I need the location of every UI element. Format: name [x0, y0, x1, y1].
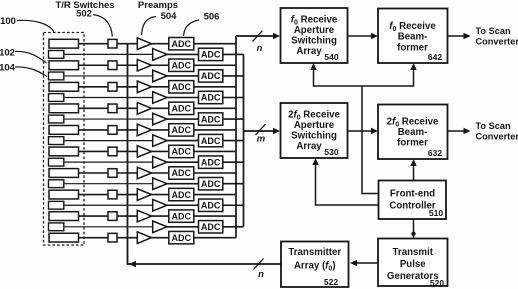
transducer element E6b (2f0) — [49, 158, 64, 166]
wire ADC A7 to f0 bus — [194, 172, 236, 174]
svg-text:ADC: ADC — [172, 39, 192, 49]
leader from 502 to T/R switch SW1 — [93, 15, 112, 37]
wire T/R switch SW7 to preamp PA7 — [117, 172, 137, 174]
label To Scan Converter (f0) — [476, 26, 518, 47]
svg-text:n: n — [257, 43, 263, 54]
wire 540 to 642 — [348, 33, 379, 39]
transmit bus wire (T/R switches to transmitter array) — [128, 44, 282, 264]
control wire front-end controller to 540 and 642 (feedback) — [314, 69, 414, 86]
T/R switch SW3 — [108, 83, 117, 92]
leader from 102 to element E2a — [15, 51, 47, 63]
ADC B8 — [199, 199, 223, 211]
svg-text:520: 520 — [430, 278, 444, 288]
transducer element E5b (2f0) — [49, 137, 64, 145]
wire element E9b to preamp PB9 — [64, 226, 153, 228]
wire element E9a to T/R switch SW9 — [79, 215, 109, 217]
label Preamps — [138, 0, 178, 11]
wire element E4b to preamp PB4 — [64, 118, 153, 120]
ADC A5 — [169, 124, 194, 136]
wire ADC B8 to 2f0 bus — [223, 204, 244, 206]
slash m-channels mark on 2f0 bus — [256, 124, 266, 135]
wire preamp PA6 to ADC A6 — [152, 150, 169, 152]
T/R switch SW10 — [108, 233, 117, 242]
svg-text:ADC: ADC — [201, 50, 221, 60]
wire element E6b to preamp PB6 — [64, 161, 153, 163]
svg-text:522: 522 — [324, 277, 338, 287]
transducer element E3a (f0) — [49, 82, 79, 91]
transducer element E7a (f0) — [49, 169, 79, 178]
svg-text:102: 102 — [0, 47, 15, 58]
svg-text:Array: Array — [296, 141, 322, 152]
transducer element E9b (2f0) — [49, 223, 64, 231]
T/R switch SW5 — [108, 126, 117, 135]
ADC A6 — [169, 145, 194, 157]
svg-text:ADC: ADC — [172, 211, 192, 221]
ADC A7 — [169, 167, 194, 179]
svg-text:ADC: ADC — [201, 179, 221, 189]
svg-text:642: 642 — [428, 52, 442, 62]
wire T/R switch SW8 to preamp PA8 — [117, 194, 137, 196]
transducer element E8a (f0) — [49, 190, 79, 199]
preamp PA2 — [137, 59, 151, 71]
ADC A9 — [169, 210, 194, 222]
wire preamp PB2 to ADC B2 — [167, 75, 199, 77]
wire transmit pulse generators to transmitter array — [350, 260, 378, 266]
svg-text:ADC: ADC — [201, 157, 221, 167]
wire 642 to scan converter (f0) — [448, 33, 471, 39]
wire element E1b to preamp PB1 — [64, 53, 153, 55]
ADC A4 — [169, 102, 194, 114]
transducer element E1a (f0) — [49, 39, 79, 48]
wire preamp PA9 to ADC A9 — [152, 215, 169, 217]
preamp PA7 — [137, 167, 151, 179]
svg-text:ADC: ADC — [172, 168, 192, 178]
wire T/R switch SW4 to preamp PA4 — [117, 107, 137, 109]
transducer array 100 (dashed outline) — [44, 33, 85, 246]
wire preamp PA3 to ADC A3 — [152, 86, 169, 88]
leader from 100 to transducer array — [17, 20, 54, 32]
svg-text:Beam-: Beam- — [398, 32, 428, 43]
T/R switch SW8 — [108, 190, 117, 199]
wire element E10a to T/R switch SW10 — [79, 237, 109, 239]
transducer element E2b (2f0) — [49, 72, 64, 80]
preamp PB5 — [153, 135, 167, 147]
svg-text:ADC: ADC — [201, 200, 221, 210]
wire 2f0 bus to aperture switching array 530 — [244, 128, 281, 134]
block 522 Transmitter Array (f0) — [281, 242, 349, 288]
ADC A8 — [169, 188, 194, 200]
svg-text:ADC: ADC — [172, 190, 192, 200]
slash n-channels mark on f0 bus — [253, 31, 263, 42]
svg-text:former: former — [397, 42, 428, 53]
preamp PA6 — [137, 146, 151, 158]
svg-text:Aperture: Aperture — [294, 120, 335, 131]
transducer element E3b (2f0) — [49, 94, 64, 102]
svg-text:632: 632 — [428, 148, 442, 158]
label To Scan Converter (2f0) — [476, 121, 518, 142]
wire preamp PA10 to ADC A10 — [152, 237, 169, 239]
svg-text:ADC: ADC — [201, 222, 221, 232]
wire ADC A5 to f0 bus — [194, 129, 236, 131]
svg-text:ADC: ADC — [201, 71, 221, 81]
ADC B4 — [199, 113, 223, 125]
label 504 — [161, 11, 178, 22]
wire element E5b to preamp PB5 — [64, 140, 153, 142]
transducer element E5a (f0) — [49, 126, 79, 135]
wire 530 to 632 — [348, 128, 379, 134]
wire element E8a to T/R switch SW8 — [79, 194, 109, 196]
preamp PA1 — [137, 38, 151, 50]
wire front-end controller to transmit pulse generators — [413, 219, 415, 239]
leader from 504 to preamp PA1 — [142, 17, 157, 36]
preamp PB4 — [153, 113, 167, 125]
label 100 — [0, 16, 16, 27]
transducer element E1b (2f0) — [49, 51, 64, 59]
svg-text:Aperture: Aperture — [294, 25, 335, 36]
transducer element E4b (2f0) — [49, 115, 64, 123]
wire element E4a to T/R switch SW4 — [79, 107, 109, 109]
svg-text:100: 100 — [0, 16, 16, 27]
svg-text:506: 506 — [204, 12, 220, 23]
wire preamp PB6 to ADC B6 — [167, 161, 199, 163]
label n on f0 bus — [257, 43, 263, 54]
T/R switch SW1 — [108, 39, 117, 48]
svg-text:Switching: Switching — [291, 131, 337, 142]
T/R switch SW4 — [108, 104, 117, 113]
preamp PA8 — [137, 189, 151, 201]
preamp PB8 — [153, 199, 167, 211]
wire preamp PB5 to ADC B5 — [167, 140, 199, 142]
control wire front-end controller to 632 — [413, 165, 415, 181]
wire element E5a to T/R switch SW5 — [79, 129, 109, 131]
wire ADC A4 to f0 bus — [194, 107, 236, 109]
svg-text:502: 502 — [76, 8, 92, 19]
control trunk from front-end controller to feedback line — [362, 86, 379, 194]
wire preamp PB4 to ADC B4 — [167, 118, 199, 120]
preamp PB3 — [153, 92, 167, 104]
transducer element E6a (f0) — [49, 147, 79, 156]
wire element E3b to preamp PB3 — [64, 97, 153, 99]
wire ADC A1 to f0 bus — [194, 43, 236, 45]
svg-text:Transmit: Transmit — [393, 247, 434, 258]
svg-text:ADC: ADC — [201, 114, 221, 124]
svg-text:ADC: ADC — [172, 125, 192, 135]
ADC B3 — [199, 91, 223, 103]
wire element E2b to preamp PB2 — [64, 75, 153, 77]
svg-text:540: 540 — [324, 52, 338, 62]
svg-text:ADC: ADC — [172, 82, 192, 92]
label 102 — [0, 47, 15, 58]
2f0 digital bus (vertical) — [243, 54, 245, 226]
transducer element E2a (f0) — [49, 61, 79, 70]
block 632 2f0 Receive Beamformer — [378, 105, 448, 160]
wire T/R switch SW1 to preamp PA1 — [117, 43, 137, 45]
ADC B7 — [199, 178, 223, 190]
svg-text:104: 104 — [0, 63, 16, 74]
preamp PB2 — [153, 70, 167, 82]
svg-text:Front-end: Front-end — [390, 189, 435, 200]
T/R switch SW7 — [108, 169, 117, 178]
svg-text:ADC: ADC — [201, 93, 221, 103]
wire element E8b to preamp PB8 — [64, 204, 153, 206]
wire T/R switch SW9 to preamp PA9 — [117, 215, 137, 217]
svg-text:ADC: ADC — [172, 104, 192, 114]
wire T/R switch SW5 to preamp PA5 — [117, 129, 137, 131]
svg-text:To Scan: To Scan — [476, 121, 511, 131]
label T/R Switches — [55, 0, 114, 11]
preamp PA3 — [137, 81, 151, 93]
wire 632 to scan converter (2f0) — [448, 128, 471, 134]
svg-text:504: 504 — [161, 11, 178, 22]
wire ADC A3 to f0 bus — [194, 86, 236, 88]
ADC A2 — [169, 59, 194, 71]
block 510 Front-end Controller — [379, 181, 447, 220]
wire preamp PA5 to ADC A5 — [152, 129, 169, 131]
preamp PB1 — [153, 49, 167, 61]
wire ADC B1 to 2f0 bus — [223, 53, 244, 55]
transducer element E4a (f0) — [49, 104, 79, 113]
transducer element E10a (f0) — [49, 233, 79, 242]
wire element E1a to T/R switch SW1 — [79, 43, 109, 45]
arrowhead into 632 bottom — [410, 159, 416, 166]
block 642 f0 Receive Beamformer — [378, 9, 448, 64]
svg-text:n: n — [258, 269, 264, 280]
svg-text:To Scan: To Scan — [476, 26, 511, 36]
wire ADC A9 to f0 bus — [194, 215, 236, 217]
wire preamp PB3 to ADC B3 — [167, 97, 199, 99]
leader from 104 to element E2b — [15, 67, 47, 77]
wire ADC B4 to 2f0 bus — [223, 118, 244, 120]
label 506 — [204, 12, 220, 23]
ADC B1 — [199, 48, 223, 60]
svg-text:former: former — [397, 138, 428, 149]
wire preamp PA4 to ADC A4 — [152, 107, 169, 109]
preamp PA10 — [137, 232, 151, 244]
wire f0 bus to aperture switching array 540 — [236, 33, 280, 39]
label 104 — [0, 63, 16, 74]
svg-text:Converter: Converter — [476, 37, 518, 47]
wire T/R switch SW10 to preamp PA10 — [117, 237, 137, 239]
label n on transmit line — [258, 269, 264, 280]
wire ADC B7 to 2f0 bus — [223, 183, 244, 185]
transducer element E8b (2f0) — [49, 201, 64, 209]
transducer element E7b (2f0) — [49, 180, 64, 188]
control wire front-end controller to 530 — [316, 164, 379, 205]
ADC A10 — [169, 231, 194, 243]
wire T/R switch SW2 to preamp PA2 — [117, 64, 137, 66]
preamp PB9 — [153, 221, 167, 233]
wire ADC A10 to f0 bus — [194, 237, 236, 239]
svg-text:ADC: ADC — [201, 136, 221, 146]
T/R switch SW2 — [108, 61, 117, 70]
wire T/R switch SW3 to preamp PA3 — [117, 86, 137, 88]
block 530 2f0 Receive Aperture Switching Array — [281, 103, 348, 158]
wire preamp PA8 to ADC A8 — [152, 194, 169, 196]
wire T/R switch SW6 to preamp PA6 — [117, 150, 137, 152]
wire ADC B5 to 2f0 bus — [223, 140, 244, 142]
svg-text:ADC: ADC — [172, 147, 192, 157]
wire ADC B6 to 2f0 bus — [223, 161, 244, 163]
wire preamp PB1 to ADC B1 — [167, 53, 199, 55]
wire element E7b to preamp PB7 — [64, 183, 153, 185]
ADC B5 — [199, 134, 223, 146]
svg-text:510: 510 — [429, 208, 443, 218]
wire preamp PB9 to ADC B9 — [167, 226, 199, 228]
svg-text:Beam-: Beam- — [398, 127, 428, 138]
arrowhead into 642 bottom — [410, 63, 416, 70]
wire ADC A2 to f0 bus — [194, 64, 236, 66]
wire element E3a to T/R switch SW3 — [79, 86, 109, 88]
ADC A1 — [169, 38, 194, 50]
ADC B2 — [199, 70, 223, 82]
label m on 2f0 bus — [257, 134, 266, 145]
svg-text:Converter: Converter — [476, 132, 518, 142]
wire preamp PA1 to ADC A1 — [152, 43, 169, 45]
block 520 Transmit Pulse Generators — [378, 239, 448, 288]
wire ADC B9 to 2f0 bus — [223, 226, 244, 228]
preamp PB6 — [153, 156, 167, 168]
T/R switch SW6 — [108, 147, 117, 156]
ADC A3 — [169, 81, 194, 93]
preamp PA9 — [137, 210, 151, 222]
ADC B9 — [199, 221, 223, 233]
arrowhead on transmit line at bus corner — [129, 261, 136, 267]
wire preamp PB8 to ADC B8 — [167, 204, 199, 206]
wire element E6a to T/R switch SW6 — [79, 150, 109, 152]
svg-text:Array: Array — [296, 46, 322, 57]
wire element E7a to T/R switch SW7 — [79, 172, 109, 174]
wire preamp PB7 to ADC B7 — [167, 183, 199, 185]
wire ADC B3 to 2f0 bus — [223, 97, 244, 99]
wire ADC A8 to f0 bus — [194, 194, 236, 196]
svg-text:Preamps: Preamps — [138, 0, 178, 11]
svg-text:ADC: ADC — [172, 60, 192, 70]
T/R switch SW9 — [108, 212, 117, 221]
svg-text:Transmitter: Transmitter — [288, 247, 341, 258]
block 540 f0 Receive Aperture Switching Array — [281, 8, 348, 63]
slash n-channels mark on transmit line — [254, 259, 264, 270]
arrowhead into 530 bottom — [312, 158, 318, 165]
wire ADC A6 to f0 bus — [194, 150, 236, 152]
arrowhead into 540 bottom — [310, 63, 316, 70]
junction dot above transmit pulse generators — [411, 232, 415, 236]
transducer element E9a (f0) — [49, 212, 79, 221]
svg-text:m: m — [257, 134, 266, 145]
svg-text:530: 530 — [324, 147, 338, 157]
label 502 — [76, 8, 92, 19]
wire element E2a to T/R switch SW2 — [79, 64, 109, 66]
wire preamp PA7 to ADC A7 — [152, 172, 169, 174]
svg-text:ADC: ADC — [172, 233, 192, 243]
preamp PA4 — [137, 103, 151, 115]
leader from 506 to ADC A1 — [184, 20, 200, 36]
svg-text:Pulse: Pulse — [400, 259, 426, 270]
preamp PA5 — [137, 124, 151, 136]
wire ADC B2 to 2f0 bus — [223, 75, 244, 77]
svg-text:Switching: Switching — [291, 36, 337, 47]
wire preamp PA2 to ADC A2 — [152, 64, 169, 66]
f0 digital bus (vertical) — [235, 36, 237, 238]
preamp PB7 — [153, 178, 167, 190]
ADC B6 — [199, 156, 223, 168]
